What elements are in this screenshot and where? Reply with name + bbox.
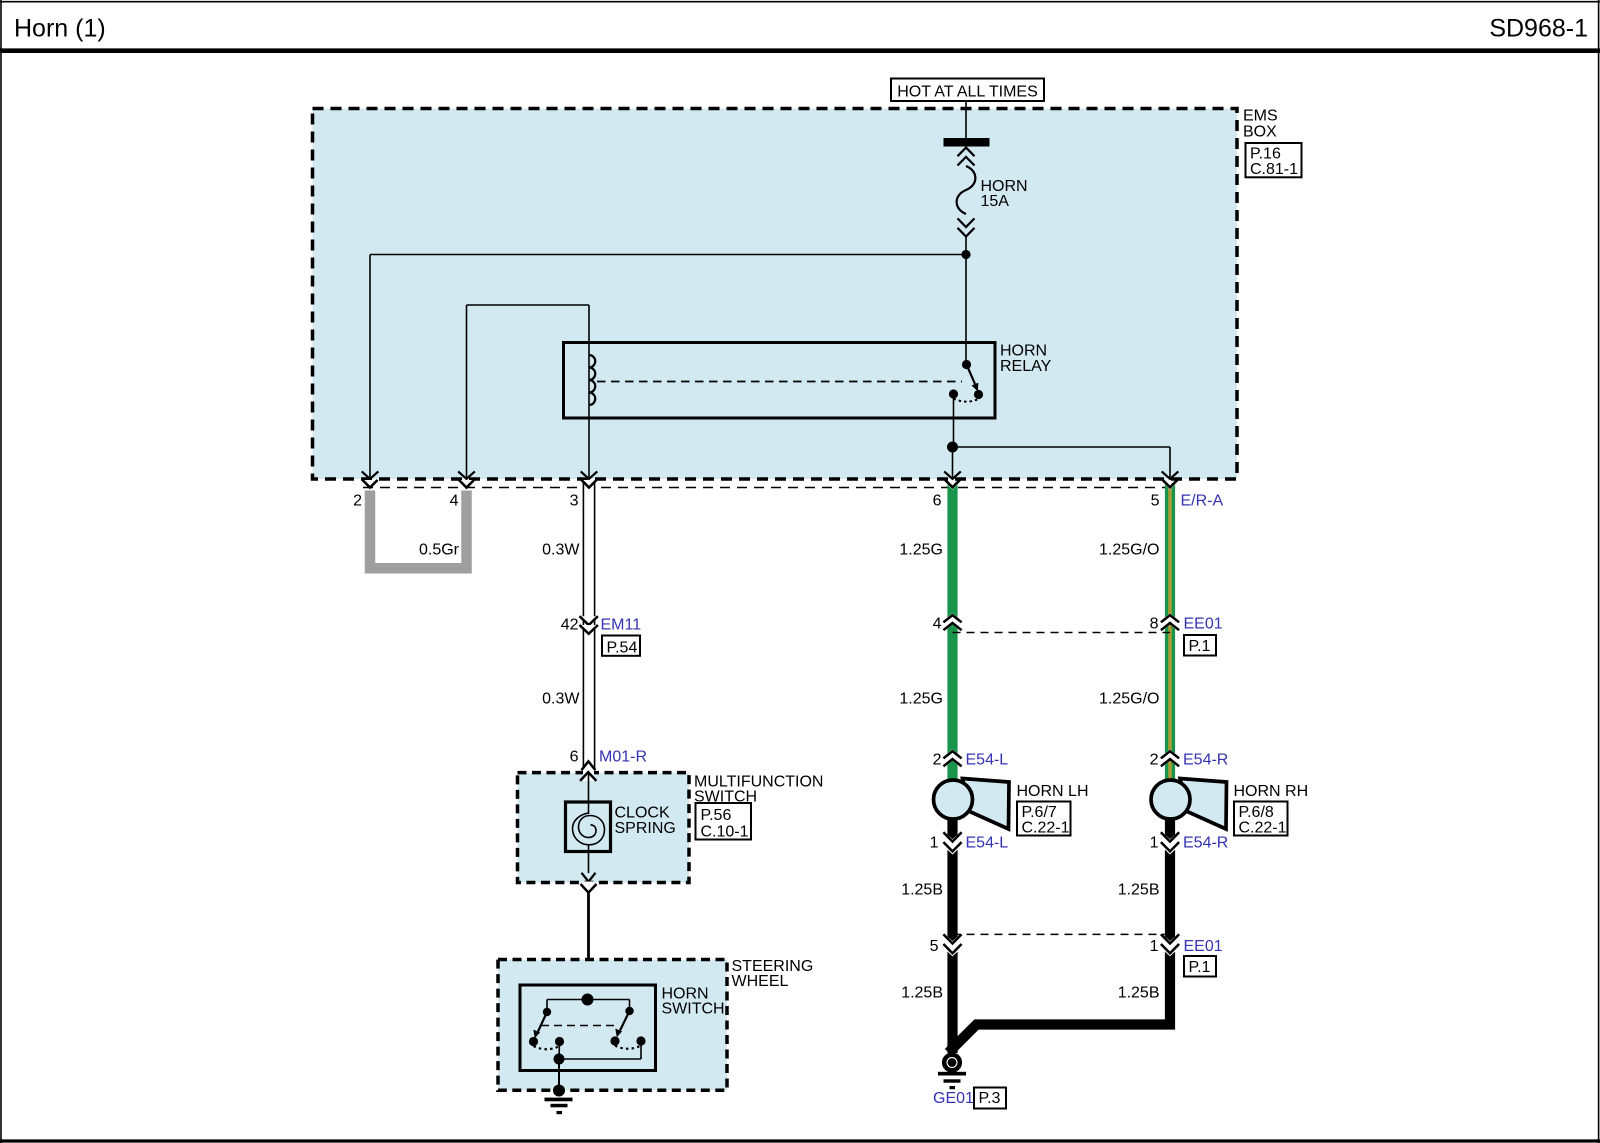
EE01 page ref box P.1 [1184, 635, 1216, 656]
clock spring spiral [573, 813, 605, 845]
svg-text:P.1: P.1 [1189, 959, 1211, 976]
junction node under relay [947, 442, 958, 453]
wire: vertical to pin 5 [1169, 447, 1171, 479]
feed rail [547, 999, 630, 1001]
wire: vertical to pin 4 [466, 305, 468, 479]
svg-text:HORN: HORN [1000, 342, 1047, 359]
multifunction page ref box P.56 C.10-1 [696, 803, 752, 840]
svg-text:1: 1 [1150, 938, 1159, 955]
svg-text:8: 8 [1150, 615, 1159, 632]
svg-text:HORN LH: HORN LH [1017, 783, 1089, 800]
svg-text:E54-L: E54-L [966, 752, 1009, 769]
right dotted throw arc [615, 1046, 641, 1049]
svg-text:EE01: EE01 [1184, 615, 1223, 632]
svg-text:M01-R: M01-R [599, 749, 647, 766]
wire: junction to pin 6 [952, 447, 954, 479]
connector E54-L pin 2 chevrons [943, 749, 962, 768]
svg-text:C.10-1: C.10-1 [701, 823, 749, 840]
input node [582, 994, 594, 1006]
horn LH symbol [934, 779, 1010, 830]
svg-text:BOX: BOX [1243, 123, 1277, 140]
horn switch internals [529, 994, 646, 1065]
black wire 1.25B from horn RH with elbow to ground [949, 818, 1171, 1053]
left contact node [529, 1037, 538, 1046]
wire from HOT box to fuse [965, 101, 967, 138]
svg-text:P.3: P.3 [979, 1090, 1001, 1107]
svg-text:42: 42 [561, 617, 579, 634]
relay switch contacts [949, 360, 983, 402]
svg-text:E54-L: E54-L [966, 835, 1009, 852]
svg-text:5: 5 [1151, 492, 1160, 509]
svg-text:HORN RH: HORN RH [1234, 783, 1309, 800]
output bus [559, 1058, 641, 1060]
connector E54-L pin 1 chevrons [943, 831, 962, 855]
coil bottom wire to pin 3 [588, 418, 590, 479]
svg-text:0.3W: 0.3W [542, 691, 580, 708]
wire: coil top vertical [588, 305, 590, 355]
svg-text:1.25B: 1.25B [901, 985, 943, 1002]
svg-text:EM11: EM11 [601, 617, 642, 634]
svg-text:1.25B: 1.25B [1118, 882, 1160, 899]
chevron at pin 6 top of green wire [947, 484, 958, 490]
ground GE01 symbol [938, 1055, 966, 1090]
multifunction switch dashed block [518, 773, 690, 883]
pin 6 pass-through arrow [944, 471, 961, 479]
svg-text:GE01: GE01 [933, 1090, 974, 1107]
svg-text:EMS: EMS [1243, 108, 1278, 125]
svg-text:2: 2 [353, 492, 362, 509]
relay coil [589, 355, 595, 418]
svg-text:SPRING: SPRING [615, 820, 676, 837]
junction node below fuse [961, 250, 970, 259]
svg-text:P.6/7: P.6/7 [1022, 804, 1057, 821]
green wire 1.25G (pin 6 to horn LH) [947, 484, 957, 781]
wire into clock spring [588, 773, 590, 815]
chevron at pin 5 top of G/O wire [1164, 484, 1175, 490]
horn relay box [564, 343, 996, 419]
title separator line [0, 48, 1600, 53]
connector EM11 pin 42 chevrons [580, 616, 598, 634]
wire: junction to pin 5 branch [953, 446, 1171, 448]
svg-text:P.56: P.56 [701, 807, 732, 824]
output bus node [554, 1054, 565, 1065]
connector E54-R pin 2 chevrons [1161, 749, 1180, 768]
svg-text:Horn (1): Horn (1) [14, 15, 106, 43]
svg-text:1.25B: 1.25B [1118, 985, 1160, 1002]
left pivot drop [546, 1000, 548, 1013]
svg-text:SD968-1: SD968-1 [1489, 15, 1588, 43]
HOT AT ALL TIMES box [891, 79, 1044, 102]
svg-text:1.25G/O: 1.25G/O [1099, 691, 1159, 708]
svg-text:6: 6 [933, 492, 942, 509]
pin 3 pass-through arrow [581, 471, 598, 479]
svg-text:15A: 15A [981, 193, 1010, 210]
svg-text:4: 4 [933, 615, 942, 632]
fuse HORN 15A [944, 138, 1028, 255]
GE01 page ref box P.3 [974, 1088, 1006, 1109]
wire: fuse junction to pin 2 branch [370, 254, 966, 256]
svg-text:2: 2 [1150, 752, 1159, 769]
svg-text:0.5Gr: 0.5Gr [419, 541, 460, 558]
horn RH page ref box P.6/8 C.22-1 [1234, 802, 1288, 837]
gray jumper loop 0.5Gr [370, 491, 467, 569]
wire out of clock spring [588, 845, 590, 873]
clock spring label [615, 805, 676, 837]
connector EE01 dashed line (upper) [953, 632, 1171, 634]
svg-text:SWITCH: SWITCH [662, 1001, 725, 1018]
right contact node [610, 1036, 619, 1045]
pin 4 pass-through arrow [458, 471, 475, 487]
chevron below multifunction box [583, 882, 594, 887]
svg-text:HOT AT ALL TIMES: HOT AT ALL TIMES [897, 84, 1038, 101]
output drop left [558, 1042, 561, 1060]
svg-text:C.81-1: C.81-1 [1250, 161, 1298, 178]
left armature [538, 1012, 547, 1032]
svg-text:1.25B: 1.25B [901, 882, 943, 899]
steering wheel label [732, 958, 814, 990]
wire: vertical to pin 2 [369, 255, 371, 479]
EMS BOX dashed block [313, 109, 1238, 480]
EE01 page ref box P.1 lower [1184, 956, 1216, 977]
svg-text:1.25G: 1.25G [899, 541, 943, 558]
connector EE01 dashed line (lower) [953, 933, 1171, 935]
EE01 pin 5 chevrons [943, 933, 962, 957]
wire: fuse junction down to relay common [965, 255, 967, 365]
wire: relay output down [953, 394, 955, 447]
svg-text:E/R-A: E/R-A [1181, 492, 1224, 509]
EMS BOX label [1243, 108, 1278, 141]
ground (steering wheel) [545, 1085, 573, 1115]
connector E54-R pin 1 chevrons [1161, 831, 1180, 855]
horn relay label [1000, 342, 1052, 375]
pin 2 pass-through arrow [362, 471, 379, 487]
wire from multifunction switch to steering wheel [587, 893, 590, 1000]
svg-text:WHEEL: WHEEL [732, 973, 789, 990]
horn switch label [662, 985, 725, 1017]
svg-text:P.1: P.1 [1189, 638, 1211, 655]
horn RH symbol [1151, 779, 1227, 830]
relay internal dashed link [597, 381, 962, 383]
right output node [636, 1036, 645, 1045]
svg-text:EE01: EE01 [1184, 938, 1223, 955]
horn LH page ref box P.6/7 C.22-1 [1017, 802, 1071, 837]
svg-text:C.22-1: C.22-1 [1239, 819, 1287, 836]
svg-text:5: 5 [930, 938, 939, 955]
svg-text:P.54: P.54 [607, 639, 638, 656]
svg-text:E54-R: E54-R [1183, 752, 1228, 769]
right pivot drop [629, 1000, 631, 1012]
svg-text:0.3W: 0.3W [542, 541, 580, 558]
pin 5 pass-through arrow [1162, 471, 1179, 479]
connector M01-R chevron marks [583, 770, 594, 776]
steering wheel dashed block [498, 960, 727, 1091]
multifunction switch label [694, 773, 823, 805]
arrow at multifunction box bottom [582, 873, 596, 882]
wire: coil branch horizontal [467, 304, 590, 306]
left dotted throw arc [534, 1046, 560, 1049]
svg-text:C.22-1: C.22-1 [1022, 819, 1070, 836]
svg-text:1: 1 [1150, 835, 1159, 852]
EE01 pin 1 chevrons [1161, 933, 1180, 957]
svg-text:RELAY: RELAY [1000, 358, 1052, 375]
EM11 page ref box P.54 [602, 636, 640, 657]
svg-text:1: 1 [930, 835, 939, 852]
white wire 0.3W from pin 3 [582, 480, 597, 768]
right pivot node [625, 1007, 633, 1015]
black wire 1.25B from horn LH [947, 818, 957, 1053]
wire to chassis ground [558, 1059, 560, 1087]
svg-text:1.25G/O: 1.25G/O [1099, 541, 1159, 558]
clock spring box [566, 802, 611, 852]
right armature [620, 1011, 630, 1031]
left output node [555, 1037, 564, 1046]
svg-text:E54-R: E54-R [1183, 835, 1228, 852]
ganged dashed link [541, 1025, 614, 1027]
left pivot node [543, 1008, 551, 1016]
svg-text:3: 3 [570, 492, 579, 509]
EE01 pin 4 chevrons [943, 613, 962, 632]
green/orange wire 1.25G/O (pin 5 to horn RH) [1165, 484, 1175, 781]
svg-text:6: 6 [570, 749, 579, 766]
svg-text:1.25G: 1.25G [899, 691, 943, 708]
horn switch box [520, 985, 656, 1071]
connector row E/R-A dashed line [363, 487, 1176, 489]
EE01 pin 8 chevrons [1161, 613, 1180, 632]
svg-text:4: 4 [450, 492, 459, 509]
output riser right [640, 1041, 642, 1059]
EMS BOX page ref box P.16 C.81-1 [1246, 143, 1302, 178]
svg-text:P.6/8: P.6/8 [1239, 804, 1274, 821]
svg-text:2: 2 [933, 752, 942, 769]
